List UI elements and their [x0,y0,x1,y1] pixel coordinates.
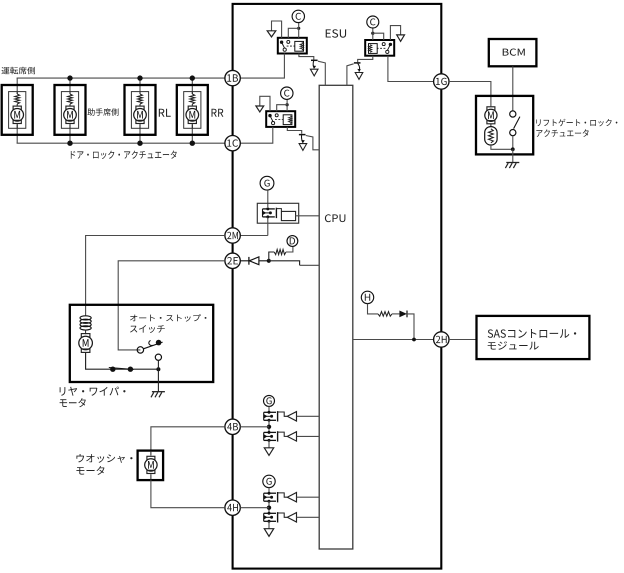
label passenger side [88,108,119,116]
connector arrow [264,448,273,456]
label BCM [503,49,525,56]
gate buffer lower [287,513,296,522]
wire mosfet to arrow [268,521,270,528]
wire contact to junction [512,136,514,150]
wire gate block to CPU [296,215,320,217]
wire C to K2 coil [286,99,288,111]
connector circle 2M [225,228,240,243]
auto-stop switch blade [143,342,162,349]
wire K1 switch common to arrow [272,21,282,38]
label door lock actuator [71,151,177,160]
washer motor box [138,451,164,481]
motor M5 rear wiper [81,334,90,337]
wire 2H to SAS module [449,339,476,341]
connector arrow K1 [267,31,276,37]
wire Q4 to 2M [267,218,269,236]
node 2E junction [267,259,271,263]
relay K3 [365,40,394,56]
wire 1G to liftgate motor [449,82,491,107]
node liftgate junction [511,147,515,151]
node wiper ground junction [156,367,160,371]
wire resistor to junction [491,145,513,149]
liftgate switch upper contact [510,111,516,117]
connector circle G1 [260,176,274,190]
label washer line2 [76,466,104,475]
auto-stop switch contact [137,347,143,353]
label SAS line2 [488,341,539,350]
wire junction to ground [512,149,514,162]
wire motor to contacts [86,353,159,369]
wire K2 switch to 1C [228,127,273,143]
label auto-stop line1 [130,314,207,321]
wire buffer to CPU lower [297,516,320,518]
wire motor to resistor [490,124,492,127]
wire K3 switch to 1G [388,56,434,82]
transistor mosfet upper [264,411,276,413]
wire actuator 2 drop [69,78,71,94]
wire BCM to switch [512,66,514,111]
label driver side [2,67,36,75]
door lock actuator M3 RL [125,85,156,135]
wire K2 coil to transistor Q2 [287,127,301,134]
wire contact to junction [157,360,159,369]
resistor R3 [378,312,392,317]
wire buffer to CPU lower [297,435,320,437]
wire 2E to CPU [269,261,300,266]
wire C to K1 coil [298,23,300,38]
relay K1 [278,38,307,54]
diode D2 [399,311,407,318]
wire K1 switch to 1B [228,54,285,79]
wire actuator 3 drop [139,78,141,94]
wire G1 to driver box [267,190,269,207]
connector circle 4H [225,500,240,515]
wire junction to ground [157,369,159,391]
connector circle 4B [225,419,240,434]
CPU box U2 [319,85,353,549]
wire junction to resistor R2 [269,252,274,261]
connector arrow [264,529,273,537]
transistor Q1 [311,59,318,61]
connector circle G [263,475,275,487]
wire C branch to K2 terminal [277,105,287,112]
node C junction K3 [371,32,374,35]
label RR [212,109,224,117]
wire 2M to wiper motor [86,236,225,317]
door lock actuator M4 RR [177,85,208,135]
gate buffer upper [287,412,296,421]
wire buffer to CPU upper [297,496,320,498]
relay K2 [266,111,295,127]
connector circle 2H [434,332,449,347]
wire Q1 base to CPU [318,61,325,85]
connector circle 1C [225,136,240,151]
wire resistor to diode D2 [392,313,399,315]
auto-stop cam [149,341,153,346]
door lock actuator M2 passenger side [55,85,86,135]
liftgate actuator box [476,96,533,154]
motor M6 washer [150,451,152,456]
label SAS line1 [488,329,577,338]
park switch blade [109,368,134,370]
label rear wiper line1 [60,387,126,396]
wire C to K3 coil [372,28,374,40]
label washer line1 [76,454,132,463]
wire mosfet to junction [268,420,270,432]
rear wiper motor box [70,305,213,382]
label CPU [325,214,346,222]
wire 2M [240,235,267,237]
wire junction left [240,426,269,428]
transistor Q3 [354,62,361,64]
label liftgate line2 [536,129,588,137]
auto-stop fixed contact [156,340,162,346]
wire mosfet to arrow [268,440,270,447]
node junction [267,506,271,510]
wire K3 coil to transistor Q3 [358,56,373,63]
wire G to mosfet [268,488,270,494]
wire junction left [240,507,269,509]
junction top bus [190,75,195,80]
gate block [276,209,281,212]
park contact upper [155,354,161,360]
wire K2 switch common to arrow [260,96,270,111]
connector arrow K2 [256,106,264,112]
wire K3 switch common to arrow [390,26,400,40]
junction top bus [137,75,142,80]
wire 2E to diode [240,260,249,262]
connector circle 1G [434,74,449,89]
transistor mosfet upper [264,492,276,494]
door lock actuator M1 driver side [2,85,33,135]
SAS control module box [477,316,590,359]
inductor L1 [80,316,91,320]
ground liftgate [506,162,519,164]
wire diode to junction [259,260,269,262]
liftgate switch blade [514,117,520,129]
wire CPU to 2H [353,339,434,341]
BCM box [489,39,537,66]
connector circle D [287,236,298,247]
wire actuator 1 drop [16,78,18,94]
wire C branch to K3 terminal [373,33,384,40]
gate buffer upper [287,493,296,502]
motor M7 liftgate [487,107,495,110]
wire 4B to washer motor [151,427,225,451]
diode D1 [248,257,250,265]
node junction [267,425,271,429]
junction bottom bus [67,141,72,146]
connector circle H [361,291,373,303]
wire 2E to auto-stop switch [118,261,225,350]
connector circle C1 [292,10,304,22]
wire Q2 base to CPU [306,136,319,150]
park switch contact b [128,367,133,372]
transistor mosfet lower [264,431,276,433]
resistor R4 capsule [485,127,497,145]
park switch contact a [110,367,115,372]
connector circle G [264,395,275,406]
ground wiper [152,391,165,393]
connector arrow K3 [397,35,405,41]
resistor R2 [274,249,286,254]
connector circle C2 [281,87,293,99]
connector circle 2E [225,253,240,268]
wire washer motor to 4H [151,480,225,508]
wire inductor to motor M5 [85,330,87,335]
wire C branch to K1 terminal [288,28,298,38]
node C junction K2 [286,103,289,106]
junction bottom bus [190,141,195,146]
wire door-lock return bus to 1C [17,142,225,144]
wire actuator 4 drop [191,78,193,94]
ESU box [233,4,442,569]
wire Q3 base to CPU [347,64,354,86]
node C junction K1 [297,27,300,30]
wire K1 coil to transistor Q1 [299,54,314,60]
label RL [159,109,171,117]
connector circle 1B [225,70,240,85]
label ESU [326,29,346,38]
transistor mosfet lower [264,512,276,514]
liftgate switch lower contact [510,130,516,136]
junction top bus [67,75,72,80]
label liftgate line1 [536,119,617,127]
connector circle C3 [367,16,379,28]
label rear wiper line2 [60,398,86,407]
wire diode to junction [407,314,414,340]
wire G to mosfet [268,406,270,412]
junction bottom bus [137,141,142,146]
transistor Q2 [299,134,306,136]
wire mosfet to junction [268,501,270,513]
transistor Q4 mosfet [263,208,275,210]
label auto-stop line2 [130,325,165,333]
wire door-lock power bus to 1B [17,77,225,79]
wire resistor to D circle [286,246,293,252]
driver box [257,203,298,223]
wire buffer to CPU upper [297,415,320,417]
gate buffer lower [287,432,296,441]
node 2H junction [412,338,416,342]
wire H to resistor [368,304,379,314]
